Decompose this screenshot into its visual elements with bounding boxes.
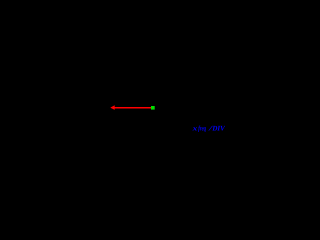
svg-text:DIV: DIV <box>211 125 225 133</box>
svg-text:x: x <box>191 125 197 133</box>
value label (blue italic scale text "x freq / DIV") <box>191 125 226 133</box>
wire (red cursor line) <box>112 107 153 109</box>
arrowhead (left-pointing red arrow tip) <box>110 105 114 110</box>
node A (green drag handle square) <box>151 106 155 110</box>
background (black scope screen) <box>0 0 225 135</box>
svg-text:freq: freq <box>198 125 206 133</box>
